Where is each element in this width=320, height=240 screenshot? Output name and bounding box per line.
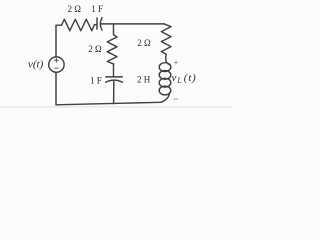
wire top-right corner — [163, 23, 166, 25]
label 1 F for C1 — [91, 4, 103, 14]
wire bottom — [56, 72, 161, 104]
svg-text:2 Ω: 2 Ω — [68, 4, 82, 14]
label minus polarity of vL — [173, 98, 178, 100]
wire C2 to bottom — [113, 80, 115, 103]
voltage source V1 — [49, 57, 64, 72]
resistor R2 (2 ohm, middle vertical) — [107, 35, 117, 64]
label 2 ohm for R3 — [137, 38, 151, 48]
svg-text:vL(t): vL(t) — [172, 72, 197, 85]
label v(t) source voltage — [28, 59, 44, 71]
wire left (top-left corner, from source up and right to R1) — [56, 25, 62, 57]
svg-text:2 Ω: 2 Ω — [88, 44, 102, 54]
svg-text:2 Ω: 2 Ω — [137, 38, 151, 48]
svg-text:1 F: 1 F — [91, 4, 103, 14]
label 2 H for L1 — [137, 75, 151, 85]
label 1 F for C2 — [90, 75, 102, 85]
wire R2 to C2 — [113, 64, 115, 77]
faint page rule line (scan artifact) — [0, 106, 233, 108]
wire top (C1 to top-right corner) — [101, 23, 164, 25]
label plus polarity of vL — [174, 61, 178, 65]
wire R1 to C1 — [95, 24, 98, 26]
inductor L1 (2 H, right vertical coil) — [159, 54, 171, 102]
capacitor C2 (1 F, middle vertical) — [106, 77, 123, 82]
wire middle branch stub from top node — [113, 24, 115, 35]
label vL(t) inductor voltage — [172, 72, 197, 85]
label 2 ohm for R1 — [68, 4, 82, 14]
svg-text:2 H: 2 H — [137, 75, 151, 85]
capacitor C1 (1 F, top horizontal) — [97, 18, 102, 31]
resistor R1 (2 ohm, top horizontal) — [62, 19, 95, 30]
resistor R3 (2 ohm, right vertical) — [161, 24, 171, 54]
svg-text:1 F: 1 F — [90, 75, 102, 85]
voltage source minus sign — [55, 67, 58, 69]
svg-text:v(t): v(t) — [28, 59, 44, 71]
voltage source plus sign — [55, 58, 59, 62]
label 2 ohm for R2 — [88, 44, 102, 54]
